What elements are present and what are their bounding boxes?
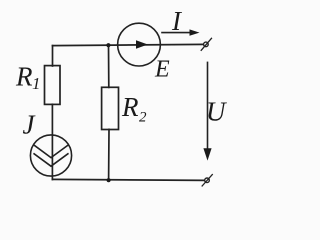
resistor R2 xyxy=(102,87,119,129)
label R2 xyxy=(121,92,147,126)
label U xyxy=(206,97,227,127)
wire bottom (to bottom terminal) xyxy=(52,179,204,180)
svg-text:2: 2 xyxy=(139,110,147,126)
wire left branch middle xyxy=(51,104,53,179)
EMF source E xyxy=(118,23,161,66)
svg-text:U: U xyxy=(206,97,227,127)
label E xyxy=(154,56,170,82)
wire middle branch lower xyxy=(108,129,110,180)
resistor R1 xyxy=(45,66,61,105)
svg-text:E: E xyxy=(154,56,170,82)
current source J xyxy=(30,135,71,176)
svg-text:1: 1 xyxy=(32,74,41,93)
label J xyxy=(23,110,37,140)
svg-text:I: I xyxy=(171,6,183,36)
wire left branch upper xyxy=(52,46,54,66)
svg-text:R: R xyxy=(15,62,33,92)
wire top (node 1 to top terminal) xyxy=(53,44,204,45)
terminal bottom xyxy=(202,175,212,187)
terminal top xyxy=(201,38,211,50)
node junction bottom xyxy=(107,178,111,182)
label R1 xyxy=(15,62,41,94)
svg-text:J: J xyxy=(23,110,37,140)
voltage arrow U xyxy=(203,62,211,160)
node junction top xyxy=(106,43,110,47)
svg-text:R: R xyxy=(121,92,139,122)
current arrow I xyxy=(162,29,200,35)
label I xyxy=(171,6,183,36)
wire middle branch upper xyxy=(108,45,110,87)
